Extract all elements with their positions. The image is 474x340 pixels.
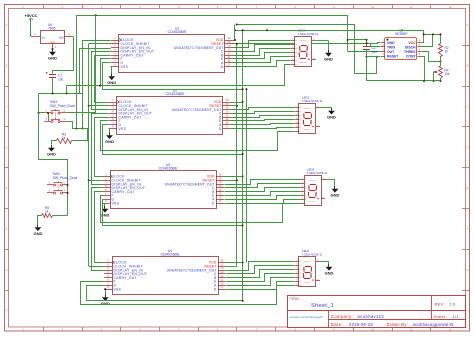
wire riser U1 CLOCK xyxy=(81,41,110,130)
svg-text:1.0: 1.0 xyxy=(450,302,456,307)
ground right of LED4 xyxy=(325,264,334,276)
svg-text:7-SEG-SC56-11: 7-SEG-SC56-11 xyxy=(302,253,323,257)
wire 555 GND long xyxy=(233,43,381,44)
wire clock-inhibit bus xyxy=(88,44,111,267)
svg-text:GND: GND xyxy=(107,80,116,85)
resistor R3 1k xyxy=(57,133,72,144)
svg-text:OUT: OUT xyxy=(387,50,395,54)
ground right of LED3 xyxy=(331,186,340,198)
svg-text:GND: GND xyxy=(324,57,333,62)
svg-text:D: D xyxy=(219,127,222,131)
wire U2 VSS to ground xyxy=(109,129,110,133)
svg-text:10k: 10k xyxy=(445,72,451,76)
svg-text:CONT: CONT xyxy=(406,54,417,58)
wire SW1 pin2 to clock drop xyxy=(68,112,96,114)
wire rail B CONT loop xyxy=(237,25,379,74)
junction SW1 feed xyxy=(38,112,40,114)
junction bus vdd U4 xyxy=(226,262,244,264)
svg-text:THRES: THRES xyxy=(404,50,416,54)
junction bus vdd U3 xyxy=(224,176,244,178)
IC U4 CD4026BE xyxy=(104,249,226,295)
ground right of LED1 xyxy=(324,50,333,62)
svg-text:Date:: Date: xyxy=(331,322,343,327)
svg-text:C: C xyxy=(467,106,469,109)
wire F/G loop row2 xyxy=(101,121,295,156)
ground below U1 xyxy=(107,74,116,86)
svg-text:CD4026BE: CD4026BE xyxy=(161,253,180,257)
IC U1 CD4026BE xyxy=(111,26,233,72)
svg-text:UNGATED"C"SEGMENT_OUT: UNGATED"C"SEGMENT_OUT xyxy=(165,182,215,186)
switch SW2 SW_Push_Dual xyxy=(47,172,77,194)
wire VCC to R2 top xyxy=(423,33,442,43)
svg-text:CARRY_OUT: CARRY_OUT xyxy=(114,276,137,280)
wire F/G loop row4 xyxy=(81,282,295,305)
svg-text:GND: GND xyxy=(33,231,42,236)
wire rail A left drop xyxy=(76,15,78,128)
wire U4 VSS to ground xyxy=(104,288,106,294)
svg-text:Sheet:: Sheet: xyxy=(434,314,447,319)
svg-text:easyeda.com/anubhavagg45: easyeda.com/anubhavagg45 xyxy=(290,315,324,319)
potentiometer R4 10k xyxy=(433,67,450,79)
svg-text:VSS: VSS xyxy=(112,201,120,205)
svg-text:VI: VI xyxy=(42,36,45,40)
svg-text:VSS: VSS xyxy=(121,65,129,69)
svg-text:D: D xyxy=(221,65,224,69)
IC U2 CD4026BE xyxy=(109,88,231,134)
wire TRIG to C2 xyxy=(366,42,381,46)
wire R5 to ground xyxy=(38,216,42,225)
svg-text:Company:: Company: xyxy=(331,314,353,319)
wire U6 VO to C1 xyxy=(53,37,74,74)
wire 555 OUT riser xyxy=(347,15,381,51)
svg-text:SW_Push_Dual: SW_Push_Dual xyxy=(50,104,75,108)
svg-text:10u: 10u xyxy=(58,77,64,81)
svg-text:REV:: REV: xyxy=(435,302,445,307)
capacitor C1 10u xyxy=(46,72,64,81)
svg-text:SW_Push_Dual: SW_Push_Dual xyxy=(53,176,78,180)
svg-text:2019-05-29: 2019-05-29 xyxy=(349,322,373,327)
wire U1 VSS to ground xyxy=(111,67,112,74)
capacitor C2 104 xyxy=(363,46,377,54)
wire R4 wiper xyxy=(432,72,434,81)
wire SW2 feed xyxy=(39,113,68,185)
svg-text:DISCH: DISCH xyxy=(405,45,416,49)
wire segment bus U2-LED2 xyxy=(231,108,295,129)
svg-text:CARRY_OUT: CARRY_OUT xyxy=(121,53,144,57)
wire bus reset U4 xyxy=(226,266,237,268)
svg-text:Sheet_1: Sheet_1 xyxy=(311,303,334,309)
svg-text:Drawn By:: Drawn By: xyxy=(387,322,409,327)
svg-text:GND: GND xyxy=(331,193,340,198)
ground below U6 xyxy=(48,48,57,61)
wire LED2 to ground xyxy=(320,107,332,109)
wire rail down to SW1 xyxy=(39,94,45,113)
ground below R5 xyxy=(33,225,42,237)
wire bus aux vertical xyxy=(245,88,247,262)
display LED2 7-SEG-SC56-11 xyxy=(295,96,323,134)
display LED1 7-SEG-SC56-11 xyxy=(291,28,319,66)
wire chain U2-U3 xyxy=(92,114,109,185)
svg-text:H: H xyxy=(467,310,469,313)
svg-text:1k: 1k xyxy=(445,49,449,53)
ground below U4 xyxy=(101,295,110,307)
wire F/G loop row1 xyxy=(67,59,291,91)
svg-text:CD4026BE: CD4026BE xyxy=(159,167,178,171)
wire LED3 to ground xyxy=(325,180,335,187)
wire C2 bottom to RESET xyxy=(366,50,381,58)
wire segment bus U3-LED3 xyxy=(225,180,301,204)
power flag +5VCC xyxy=(24,13,37,21)
svg-text:1k: 1k xyxy=(62,136,66,140)
junction rail A SW1 drop xyxy=(95,14,97,113)
svg-text:UNGATED"C"SEGMENT_OUT: UNGATED"C"SEGMENT_OUT xyxy=(167,268,217,272)
wire segment bus U4-LED4 xyxy=(227,262,295,290)
wire C1 to rail xyxy=(52,78,54,94)
svg-text:D: D xyxy=(6,146,8,149)
resistor R5 1k xyxy=(42,206,53,218)
svg-text:GND: GND xyxy=(387,41,395,45)
junction rail-66.5 xyxy=(66,86,68,95)
resistor R2 1k xyxy=(439,44,449,57)
wire LED1 to ground xyxy=(316,41,329,51)
wire rail C VCC xyxy=(235,31,424,43)
svg-text:D: D xyxy=(214,287,217,291)
svg-text:VSS: VSS xyxy=(119,127,127,131)
junction bus reset U3 xyxy=(224,179,238,181)
wire CONT loop xyxy=(422,57,426,83)
svg-text:anubhav123: anubhav123 xyxy=(358,314,385,319)
svg-text:CARRY_OUT: CARRY_OUT xyxy=(112,190,135,194)
svg-text:G: G xyxy=(467,269,469,272)
ground below U2 xyxy=(105,133,114,145)
svg-text:TITLE:: TITLE: xyxy=(290,297,300,301)
svg-text:7-SEG-SC56-11: 7-SEG-SC56-11 xyxy=(302,99,323,103)
svg-text:GND: GND xyxy=(48,56,57,61)
IC U3 CD4026BE xyxy=(102,163,224,209)
regulator U6 7805 xyxy=(32,23,74,49)
wire clock rail A xyxy=(77,15,348,17)
wire riser U1 DISPLAY_EN_IN xyxy=(80,49,111,94)
svg-text:GND: GND xyxy=(101,301,110,306)
svg-text:anubhavaggarwal45: anubhavaggarwal45 xyxy=(413,322,455,327)
junction rail C start xyxy=(234,29,268,31)
svg-text:RESET: RESET xyxy=(387,54,399,58)
wire SW2 right column xyxy=(53,184,69,216)
wire DISCH up xyxy=(422,33,435,46)
ground below R3 xyxy=(47,145,56,157)
svg-text:C: C xyxy=(6,106,8,109)
wire SW1 lower loop xyxy=(68,122,88,141)
junction bus reset U2 xyxy=(231,105,238,107)
wire +5V rail xyxy=(39,93,83,95)
svg-text:GND: GND xyxy=(325,271,334,276)
svg-text:NE555P: NE555P xyxy=(395,32,408,36)
svg-text:CD4026BE: CD4026BE xyxy=(166,92,185,96)
svg-text:CARRY_OUT: CARRY_OUT xyxy=(119,115,142,119)
wire chain U3-U4 xyxy=(92,188,105,271)
svg-text:7-SEG-SC56-11: 7-SEG-SC56-11 xyxy=(307,171,328,175)
svg-text:104: 104 xyxy=(372,50,378,54)
svg-text:+5VCC: +5VCC xyxy=(24,13,37,18)
wire bus vdd vertical xyxy=(242,29,244,301)
svg-text:7805: 7805 xyxy=(48,26,56,30)
svg-text:VSS: VSS xyxy=(114,287,122,291)
ground right of LED2 xyxy=(327,108,336,120)
wire F/G loop row3 xyxy=(101,196,301,227)
wire chain U1-U2 xyxy=(92,52,111,110)
svg-text:D: D xyxy=(212,201,215,205)
junction C1-rail xyxy=(52,93,54,95)
ground below U3 xyxy=(101,206,110,218)
svg-text:VO: VO xyxy=(59,36,64,40)
display LED3 7-SEG-SC56-11 xyxy=(300,168,328,206)
wire R4 bottom xyxy=(367,57,442,82)
wire LED4 to ground xyxy=(320,261,329,264)
switch SW1 SW_Push_Dual xyxy=(44,100,75,123)
svg-text:GND: GND xyxy=(105,139,114,144)
svg-text:TRIG: TRIG xyxy=(387,45,395,49)
svg-text:7-SEG-SC56-11: 7-SEG-SC56-11 xyxy=(297,32,318,36)
timer U5 NE555P xyxy=(381,29,422,60)
wire +5VCC to U6 VI xyxy=(31,21,33,37)
svg-text:UNGATED"C"SEGMENT_OUT: UNGATED"C"SEGMENT_OUT xyxy=(174,46,224,50)
title block xyxy=(288,296,466,328)
svg-text:G: G xyxy=(6,269,8,272)
display LED4 7-SEG-SC56-11 xyxy=(295,249,323,286)
svg-text:GND: GND xyxy=(47,152,56,157)
svg-text:GND: GND xyxy=(101,213,110,218)
svg-text:1/1: 1/1 xyxy=(453,314,460,319)
svg-text:GND: GND xyxy=(327,115,336,120)
svg-text:CD4026BE: CD4026BE xyxy=(168,30,187,34)
wire bus reset vertical xyxy=(236,43,238,266)
svg-text:VCC: VCC xyxy=(408,41,416,45)
wire U1 VDD riser xyxy=(233,24,238,42)
wire rail D xyxy=(348,39,368,46)
svg-text:H: H xyxy=(6,310,8,313)
svg-text:D: D xyxy=(467,146,469,149)
wire THRES to R2 bottom xyxy=(422,52,442,67)
wire segment bus U1-LED1 xyxy=(233,41,291,67)
svg-text:UNGATED"C"SEGMENT_OUT: UNGATED"C"SEGMENT_OUT xyxy=(172,108,222,112)
wire R3 to ground xyxy=(52,141,57,145)
wire U3 VSS to ground xyxy=(103,204,105,207)
junction bus vdd U2 xyxy=(231,101,244,103)
svg-text:1k: 1k xyxy=(45,210,49,214)
svg-text:GND: GND xyxy=(50,41,56,44)
wire SW1 poles link xyxy=(47,112,49,122)
